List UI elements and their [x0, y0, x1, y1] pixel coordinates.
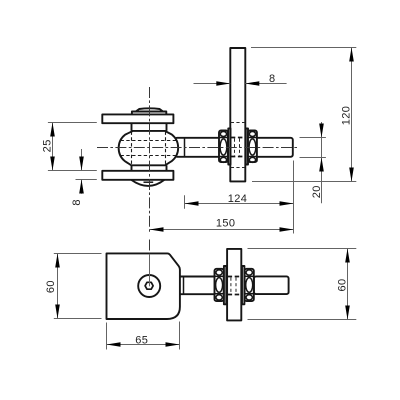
bar hidden hole left — [234, 139, 236, 156]
hex nut left (top view) — [219, 131, 228, 163]
grease fitting outer circle — [138, 275, 160, 297]
dim 8 top: arrow left — [216, 81, 230, 86]
ext line bar top right — [251, 47, 356, 49]
ext line plate low-left — [76, 179, 97, 181]
flat bar (top view) — [230, 48, 245, 181]
dim 120 arrow bottom — [349, 168, 354, 182]
dim 120 arrow top — [349, 48, 354, 62]
bar hidden rod bottom (bottom view) — [228, 294, 241, 296]
plate centerline lead — [149, 254, 151, 286]
bar hidden rod top — [231, 137, 245, 139]
washer right (bottom view) — [242, 266, 244, 304]
dim right 60 arrow bottom — [345, 306, 350, 320]
dim left 60 arrow top — [55, 254, 60, 268]
dim 8 top: leader right — [245, 83, 286, 85]
dim 20 ext bottom — [300, 157, 326, 159]
grease fitting hex nipple — [145, 282, 153, 289]
svg-text:65: 65 — [135, 334, 148, 346]
hex nut right (top view) — [248, 131, 257, 163]
svg-text:8: 8 — [269, 73, 276, 85]
top cap base — [132, 112, 166, 115]
dim 150 arrow right — [280, 227, 294, 232]
top plate — [102, 114, 173, 123]
ext line bar bottom right — [252, 181, 356, 183]
svg-text:60: 60 — [336, 278, 348, 291]
dim 25 line — [52, 123, 54, 171]
bar hidden slot top — [231, 122, 245, 124]
bottom dome — [131, 180, 164, 186]
dim 124 line — [185, 203, 294, 205]
shaft (bottom view) — [180, 277, 215, 295]
threaded rod end (bottom view) — [254, 276, 289, 294]
ext line rod end — [293, 161, 295, 234]
bar hidden rod bottom — [231, 156, 245, 158]
ball hidden thread top — [121, 140, 178, 142]
ext line plate mid-left — [48, 170, 97, 172]
washer left (top view) — [228, 128, 230, 164]
ext line rod start — [184, 195, 186, 209]
ball hidden thread bottom — [121, 155, 178, 157]
washer left (bottom view) — [224, 266, 226, 304]
threaded rod (top view) — [175, 138, 293, 157]
bottom dome chord — [144, 181, 154, 183]
mounting plate (bottom view) — [107, 253, 180, 319]
rod shoulder junction line — [184, 139, 186, 157]
flat bar (bottom view) — [227, 249, 241, 321]
dim 65 arrow right — [166, 342, 180, 347]
dim 25 arrow top — [50, 123, 55, 137]
hex nut right (bottom view) — [245, 269, 254, 301]
ext line 65 left — [106, 323, 108, 350]
svg-text:60: 60 — [45, 280, 57, 293]
dim 20 ext top — [300, 137, 326, 139]
dim 65 line — [107, 344, 180, 346]
dim right 60 arrow top — [345, 249, 350, 263]
bar hidden rod top (bottom view) — [228, 276, 241, 278]
centerline above plate (bottom view) — [149, 240, 151, 254]
bar hidden slot bottom — [231, 167, 245, 169]
lower neck — [132, 165, 167, 171]
dim 150 arrow left — [150, 227, 164, 232]
svg-text:20: 20 — [311, 185, 323, 198]
dim 65 arrow left — [107, 342, 121, 347]
dim 20 line — [321, 122, 323, 203]
ext line plate top-left — [48, 122, 97, 124]
ext line left 60 bottom — [54, 318, 102, 320]
shaft junction line — [183, 277, 185, 295]
swivel ball body U1 — [119, 131, 179, 165]
dim left 60 line — [57, 254, 59, 319]
vertical centerline (top view) — [149, 87, 151, 234]
svg-text:25: 25 — [42, 139, 54, 152]
bottom plate — [102, 171, 173, 180]
dim 8 left line bottom — [81, 180, 83, 194]
dim left 60 arrow bottom — [55, 305, 60, 319]
dim 8 left arrow bottom — [79, 180, 84, 194]
dim 20 arrow top — [319, 124, 324, 138]
dim 124 arrow left — [185, 201, 199, 206]
dim 25 arrow bottom — [50, 157, 55, 171]
horizontal centerline (rod axis) — [97, 147, 298, 149]
upper neck — [132, 123, 167, 131]
washer right (top view) — [246, 128, 248, 164]
ext line right 60 top — [248, 248, 357, 250]
hex nut left (bottom view) — [215, 269, 224, 301]
ext line right 60 bottom — [248, 319, 357, 321]
dim 120 line — [351, 48, 353, 182]
dim 8 top: arrow right — [245, 81, 259, 86]
svg-text:150: 150 — [216, 217, 236, 229]
top cap dome — [136, 108, 163, 111]
dim 8 left line top — [81, 149, 83, 171]
dim 20 arrow bottom — [319, 158, 324, 172]
bar hidden slot right — [235, 278, 237, 294]
dim 8 top: leader left — [194, 83, 231, 85]
svg-text:8: 8 — [71, 199, 83, 206]
dim 124 arrow right — [280, 201, 294, 206]
dim 150 line — [150, 229, 294, 231]
ext line 65 right — [179, 322, 181, 350]
bar hidden hole right — [239, 139, 241, 156]
svg-text:124: 124 — [228, 193, 248, 205]
svg-text:120: 120 — [341, 106, 353, 126]
bar hidden slot left — [230, 278, 232, 294]
dim 8 left arrow top — [79, 157, 84, 171]
ball hidden bore right — [165, 132, 167, 165]
ext line left 60 top — [54, 253, 102, 255]
ball hidden bore left — [131, 132, 133, 165]
dim right 60 line — [347, 249, 349, 320]
